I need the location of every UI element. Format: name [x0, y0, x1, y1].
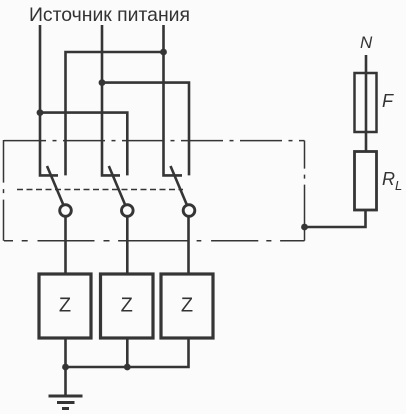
resistor RL body — [355, 152, 377, 211]
switch S2 pivot circle — [122, 205, 134, 217]
wire: crossover from phase 2 to switch S3 right contact — [102, 83, 189, 176]
junction dot on phase 2 at middle crossover — [99, 79, 106, 86]
wire: phase 1 feeder with left contact foot of switch S1 — [40, 25, 58, 175]
svg-text:F: F — [382, 91, 394, 111]
wire: crossover from phase 1 to switch S2 right contact — [40, 113, 127, 176]
wire: neutral down through fuse to resistor — [365, 55, 368, 152]
svg-text:Z: Z — [59, 295, 71, 317]
switch S1 pivot circle — [60, 205, 72, 217]
ground symbol — [49, 396, 83, 409]
svg-text:N: N — [360, 33, 373, 52]
load box Z3 — [161, 274, 213, 338]
switch S3 moving arm — [171, 166, 187, 204]
wire: bus to ground — [64, 367, 67, 395]
junction dot on phase 3 at top crossover — [160, 49, 167, 56]
wire: resistor RL to enclosure edge — [305, 210, 366, 227]
enclosure dash-dot boundary bottom edge — [4, 240, 305, 242]
fuse F body — [355, 73, 377, 132]
wire: crossover from phase 3 to switch S1 right contact — [66, 52, 164, 175]
wire: Z3 bottom to neutral bus and bus run — [66, 338, 189, 367]
wire: switch S3 output to load Z3 — [187, 217, 190, 274]
wire: switch S2 output to load Z2 — [126, 217, 129, 274]
junction dot on phase 1 at lower crossover — [37, 109, 44, 116]
load box Z2 — [101, 274, 154, 338]
wire: phase 3 feeder with left contact foot of switch S3 — [164, 25, 183, 175]
enclosure dash-dot boundary right edge — [304, 141, 306, 241]
wire: Z1 bottom to neutral bus — [64, 338, 67, 368]
enclosure dash-dot boundary left edge — [3, 140, 5, 241]
switch S1 moving arm — [47, 166, 63, 204]
enclosure dash-dot boundary top edge — [4, 140, 305, 142]
switch S3 pivot circle — [183, 205, 195, 217]
svg-text:Z: Z — [121, 295, 133, 317]
load box Z1 — [39, 274, 91, 338]
junction dot on enclosure right edge — [301, 224, 308, 231]
wire: Z2 bottom to neutral bus — [126, 338, 129, 368]
wire: switch S1 output to load Z1 — [64, 217, 67, 274]
svg-text:Источник питания: Источник питания — [29, 4, 190, 26]
mechanical linkage dashed line — [17, 189, 183, 191]
junction dot bus at Z2 — [124, 364, 131, 371]
junction dot bus at Z1 — [62, 364, 69, 371]
wire: phase 2 feeder with left contact foot of switch S2 — [102, 25, 120, 175]
switch S2 moving arm — [109, 166, 125, 204]
svg-text:Z: Z — [181, 295, 193, 317]
